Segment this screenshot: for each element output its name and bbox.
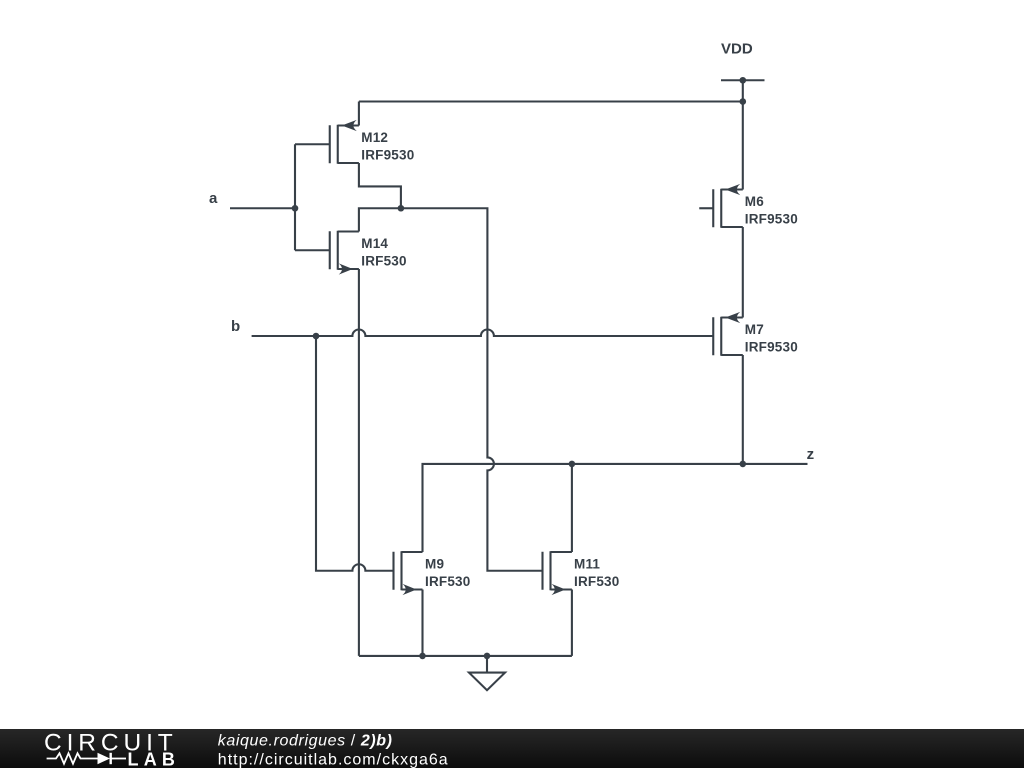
svg-text:IRF530: IRF530: [425, 574, 470, 589]
power supply VDD bar: [721, 79, 765, 81]
svg-text:b: b: [231, 318, 240, 335]
logo resistor zigzag: [47, 753, 98, 763]
svg-text:M11: M11: [574, 556, 600, 571]
wire M9 source to ground rail: [421, 590, 423, 656]
svg-text:M14: M14: [361, 236, 388, 251]
junction dot rail / ground: [484, 653, 491, 660]
ground symbol: [469, 656, 505, 690]
svg-text:a: a: [209, 190, 218, 207]
junction dot top rail / VDD: [740, 98, 747, 105]
junction dot on VDD bar: [740, 77, 747, 84]
wire M14 source down to ground rail: [358, 269, 360, 656]
wire drain node bus to M11 gate with hop over z wire: [359, 208, 543, 571]
junction dot a gate node: [292, 205, 299, 212]
transistor M6 IRF9530: [699, 184, 743, 228]
wire input a: [230, 207, 295, 209]
svg-text:http://circuitlab.com/ckxga6a: http://circuitlab.com/ckxga6a: [218, 751, 449, 768]
svg-text:IRF530: IRF530: [361, 253, 406, 268]
junction dot z / M11 drain: [569, 461, 576, 468]
svg-text:IRF9530: IRF9530: [745, 339, 798, 354]
svg-text:VDD: VDD: [721, 41, 753, 58]
wire b vertical to M9 gate with hop: [316, 336, 394, 571]
logo diode: [98, 753, 111, 764]
svg-text:LAB: LAB: [128, 750, 181, 768]
svg-text:IRF9530: IRF9530: [745, 211, 798, 226]
svg-text:IRF9530: IRF9530: [361, 147, 414, 162]
svg-text:kaique.rodrigues / 2)b): kaique.rodrigues / 2)b): [218, 733, 393, 750]
wire M6 drain to M7 source: [742, 227, 744, 318]
transistor M14 IRF530: [295, 231, 359, 275]
junction dot drain node: [398, 205, 405, 212]
wire M9 drain up and z output wire: [423, 464, 808, 552]
wire input b with hops to M7 gate: [252, 330, 714, 336]
junction dot z / M7 drain: [740, 461, 747, 468]
wire M12 drain to node: [359, 163, 401, 208]
svg-text:M12: M12: [361, 130, 388, 145]
wire top rail: [359, 100, 743, 102]
wire M11 drain up to z: [571, 464, 573, 552]
svg-text:IRF530: IRF530: [574, 574, 619, 589]
junction dot b node: [313, 333, 320, 340]
wire gate vertical M12-M14: [294, 144, 296, 250]
svg-text:M6: M6: [745, 194, 764, 209]
transistor M9 IRF530: [394, 551, 423, 595]
svg-text:M7: M7: [745, 322, 764, 337]
junction dot rail / M9 source: [419, 653, 426, 660]
wire M11 source down: [571, 590, 573, 656]
transistor M7 IRF9530: [713, 312, 743, 356]
transistor M11 IRF530: [543, 551, 572, 595]
transistor M12 IRF9530: [295, 120, 359, 164]
svg-text:z: z: [807, 446, 815, 463]
wire VDD vertical to M6: [742, 80, 744, 189]
svg-text:M9: M9: [425, 556, 444, 571]
wire ground rail: [359, 655, 572, 657]
wire M12 source to top rail: [358, 102, 360, 126]
wire M7 drain to z node: [742, 355, 744, 464]
